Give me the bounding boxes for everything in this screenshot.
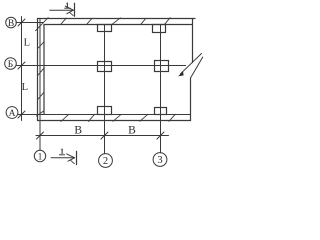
svg-text:А: А — [9, 109, 16, 119]
left wall outer line — [37, 19, 39, 121]
corner hatch top-left — [36, 18, 49, 31]
left wall hatch 3 — [38, 92, 44, 99]
left wall hatch 4 — [37, 111, 45, 116]
axis line 3 — [160, 25, 162, 153]
bottom section digit underline — [59, 154, 65, 156]
top wall hatch 4 — [141, 18, 146, 24]
svg-text:3: 3 — [157, 155, 162, 166]
circle В — [6, 17, 17, 28]
svg-text:L: L — [24, 38, 30, 49]
axis line Б — [16, 65, 185, 67]
bottom wall bottom line — [38, 120, 191, 122]
top section digit underline — [64, 7, 70, 9]
bottom wall hatch 5 — [169, 114, 176, 121]
top wall hatch 5 — [165, 18, 171, 25]
bottom wall hatch 2 — [89, 114, 95, 121]
bottom wall hatch 4 — [140, 114, 148, 121]
bottom section arrowhead overshoot slash — [71, 160, 75, 163]
break line diagonal A — [181, 54, 202, 74]
top wall outer line — [38, 18, 196, 20]
column at axis 2 / row В — [98, 25, 112, 32]
right edge upper segment — [192, 19, 194, 63]
svg-text:1: 1 — [60, 147, 64, 156]
break arrowhead — [178, 71, 183, 76]
top section arrowhead stroke upper — [65, 6, 73, 10]
svg-text:1: 1 — [38, 152, 43, 162]
axis line В — [16, 22, 44, 24]
top section arrowhead stroke lower — [67, 10, 74, 14]
tick at axis 3 — [157, 132, 164, 139]
svg-text:Б: Б — [8, 60, 13, 70]
tick at axis Б — [18, 62, 25, 69]
svg-text:B: B — [128, 125, 136, 137]
column at axis 3 / row А — [155, 108, 167, 115]
top section arrow line — [50, 9, 74, 11]
axis line 1 — [39, 19, 41, 151]
column at axis 3 / row В — [153, 25, 166, 33]
axis line 2 — [104, 25, 106, 154]
tick at axis 1 — [37, 132, 44, 139]
tick at axis А — [18, 111, 25, 118]
bottom section cut bar — [76, 151, 78, 164]
tick at axis 2 — [101, 132, 108, 139]
column at axis 2 / row Б — [98, 62, 112, 72]
stub from dim line to circle 1 — [39, 136, 41, 151]
circle 1 — [34, 150, 45, 161]
circle 2 — [99, 154, 113, 168]
svg-text:В: В — [8, 19, 14, 29]
top wall hatch 3 — [112, 18, 121, 25]
bottom section arrow line — [51, 157, 75, 159]
bottom dimension line — [36, 135, 169, 137]
circle А — [6, 107, 18, 119]
left wall inner line — [43, 25, 45, 115]
svg-text:L: L — [22, 82, 28, 93]
tick at axis В — [18, 19, 25, 26]
column at axis 2 / row А — [98, 107, 112, 115]
bottom section arrowhead stroke lower — [68, 158, 75, 161]
svg-text:B: B — [74, 125, 82, 137]
right edge lower segment — [190, 78, 192, 121]
column at axis 3 / row Б — [155, 61, 169, 72]
bottom wall hatch 3 — [113, 114, 121, 121]
top wall inner line — [44, 24, 193, 26]
break line diagonal B — [191, 57, 203, 78]
left dimension line — [21, 17, 23, 121]
top section cut bar — [74, 3, 76, 16]
left wall hatch 2 — [38, 68, 44, 75]
bottom wall hatch 1 — [61, 114, 69, 121]
circle 3 — [153, 153, 167, 167]
top section arrowhead overshoot slash — [70, 13, 73, 16]
svg-text:2: 2 — [103, 156, 108, 167]
top wall hatch 1 — [61, 18, 66, 24]
stub from dim line to circle 3 — [160, 136, 162, 153]
circle Б — [5, 58, 17, 70]
top wall hatch 2 — [87, 18, 92, 24]
left wall hatch 1 — [38, 42, 44, 48]
stub from dim line to circle 2 — [104, 136, 106, 154]
bottom section arrowhead stroke upper — [67, 154, 75, 158]
axis line А — [18, 114, 191, 116]
